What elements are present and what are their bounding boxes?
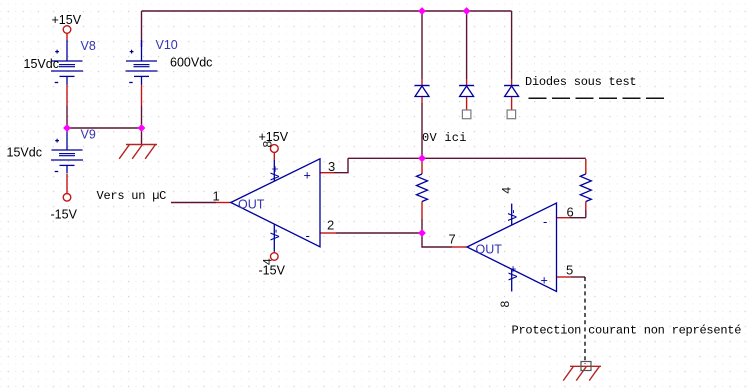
pin stub op2 pin5 (557, 276, 572, 278)
lead resistor R2 top (585, 159, 587, 174)
wire resistor R1 bottom to junction (421, 219, 423, 233)
wire diode D3 top drop (511, 11, 513, 79)
svg-text:V-: V- (506, 210, 520, 221)
wire V8 bottom to junction row (66, 106, 68, 128)
unconnected pin square D3 (507, 110, 515, 119)
junction V8/V9 row left (63, 124, 71, 132)
svg-text:+: + (304, 169, 311, 183)
wire 0V horizontal line (348, 157, 586, 159)
svg-text:+15V: +15V (52, 13, 82, 27)
svg-text:V+: V+ (268, 165, 282, 180)
unconnected pin square D2 (462, 110, 471, 119)
lead diode D3 top (511, 79, 513, 85)
op-amp U1 V+ pin (273, 160, 275, 181)
diode D3 (504, 86, 519, 97)
resistor R2 (580, 174, 591, 202)
svg-text:6: 6 (567, 205, 574, 220)
svg-text:15Vdc: 15Vdc (24, 57, 59, 71)
svg-text:V9: V9 (81, 128, 96, 142)
unconnected pin square ground G2 (581, 362, 591, 371)
wire junction down to pin7 row (422, 233, 452, 247)
svg-text:7: 7 (449, 232, 456, 247)
wire diode D1 bottom to 0V node (421, 103, 423, 158)
ground G2 (563, 366, 601, 380)
svg-text:V8: V8 (81, 39, 96, 53)
lead diode D2 bottom to square (466, 97, 468, 111)
svg-text:+: + (541, 274, 548, 288)
op-amp U1 V- pin (273, 224, 275, 251)
lead diode D1 bottom (421, 97, 423, 104)
ground G1 (119, 145, 157, 159)
junction 0V line / R1 top (418, 154, 426, 162)
lead battery V9 bottom to -15V circle (66, 174, 68, 193)
diode D1 (415, 86, 430, 97)
wire junction row horizontal (67, 127, 142, 129)
wire pin1 to µC (171, 202, 216, 204)
lead +15V circle to V8 (66, 34, 68, 41)
op-amp U1 triangle (231, 159, 320, 247)
pin stub op1 pin1 (216, 202, 231, 204)
svg-text:V10: V10 (156, 38, 178, 52)
dashed wire pin5 to ground G2 (584, 277, 586, 364)
diode D2 (459, 86, 474, 97)
junction top rail / D2 (463, 7, 471, 15)
dashed annotation line (diodes sous test) (529, 97, 665, 99)
wire V10 top drop (141, 11, 143, 47)
svg-text:3: 3 (328, 159, 335, 174)
svg-text:V-: V- (268, 229, 282, 240)
svg-text:15Vdc: 15Vdc (7, 146, 42, 160)
wire V10 bottom through junction to ground (141, 106, 143, 145)
lead diode D3 bottom to square (511, 97, 513, 111)
terminal -15V circle (battery V9 bottom) (63, 194, 71, 202)
lead +15V circle to op1 V+ pin (273, 152, 275, 160)
lead V8 bottom (66, 85, 68, 107)
wire top rail (142, 10, 512, 12)
svg-text:5: 5 (566, 263, 573, 278)
battery V8 (51, 40, 83, 85)
svg-text:Vers un µC: Vers un µC (97, 189, 167, 203)
op-amp U2 triangle (467, 203, 557, 292)
svg-text:Diodes sous test: Diodes sous test (525, 75, 636, 89)
svg-text:4: 4 (500, 187, 514, 194)
pin stub op2 pin6 (557, 217, 571, 219)
svg-text:0V ici: 0V ici (422, 131, 467, 145)
lead diode D1 top (421, 79, 423, 85)
svg-text:4: 4 (261, 258, 275, 265)
op-amp U2 V+ pin (bottom) (511, 269, 513, 291)
svg-text:OUT: OUT (476, 243, 503, 257)
wire junction to pin2 (336, 232, 422, 234)
lead resistor R1 bottom (421, 202, 423, 220)
lead V10 bottom (141, 85, 143, 107)
svg-text:8: 8 (261, 141, 275, 148)
battery V9 (15Vdc lower) (51, 129, 83, 174)
junction top rail / D1 (418, 7, 426, 15)
svg-text:-: - (543, 214, 547, 229)
svg-text:1: 1 (213, 189, 220, 204)
lead resistor R2 bottom (585, 202, 587, 211)
svg-text:2: 2 (327, 218, 334, 233)
wire pin3 step up (334, 158, 348, 172)
op-amp U2 V- pin (top) (511, 204, 513, 225)
svg-text:-: - (306, 228, 310, 243)
pin stub op1 pin2 (320, 232, 336, 234)
junction V10/ground row right (138, 124, 146, 132)
svg-text:8: 8 (498, 301, 512, 308)
svg-text:OUT: OUT (238, 198, 265, 212)
wire diode D1 top drop (421, 11, 423, 79)
svg-text:600Vdc: 600Vdc (170, 56, 212, 70)
wire pin5 to dashed (571, 276, 585, 278)
terminal +15V circle (op1 V+) (270, 145, 278, 153)
wire pin6 to resistor R2 (570, 217, 586, 219)
pin stub op2 pin7 (452, 246, 467, 248)
terminal +15V circle (V8 top) (63, 26, 71, 34)
svg-text:-15V: -15V (51, 208, 78, 222)
lead resistor R1 top (421, 159, 423, 174)
lead op1 V- pin to -15V circle (273, 251, 275, 253)
lead diode D2 top (466, 79, 468, 85)
svg-text:V+: V+ (506, 265, 520, 280)
resistor R1 (417, 174, 428, 202)
wire diode D2 top drop (466, 11, 468, 79)
junction R1 bottom / pin2 (418, 229, 426, 237)
battery V10 (126, 40, 158, 85)
svg-text:Protection courant non représe: Protection courant non représenté (512, 324, 742, 338)
terminal -15V circle (op1 V-) (271, 253, 279, 261)
pin stub op1 pin3 (320, 172, 334, 174)
